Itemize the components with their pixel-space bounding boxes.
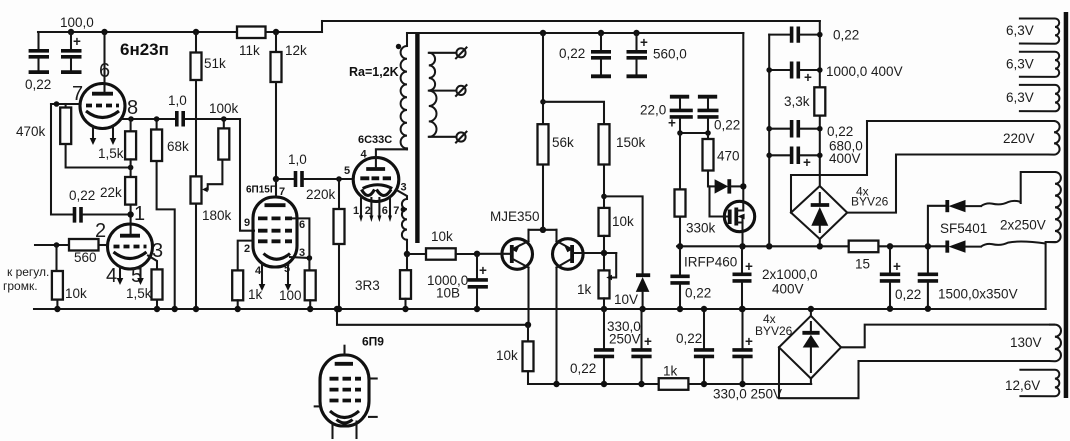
transformer T2 winding 2x250V bbox=[1046, 172, 1061, 242]
resistor R 1k cathode 6П15П bbox=[232, 270, 243, 300]
svg-text:1k: 1k bbox=[663, 364, 678, 379]
resistor R 12k bbox=[271, 32, 282, 197]
resistor R 56k bbox=[538, 33, 549, 230]
svg-text:9: 9 bbox=[244, 217, 250, 229]
transformer T1 secondary winding bbox=[429, 53, 437, 137]
wire Q2 emitter up bbox=[555, 230, 557, 241]
node 3R3 ground bbox=[402, 306, 408, 312]
transformer T1 cathode winding bbox=[397, 190, 408, 254]
wire 220V top lead bbox=[867, 120, 1054, 122]
svg-text:+: + bbox=[640, 35, 648, 50]
wire secondary tap middle bbox=[429, 90, 457, 92]
capacitor C10 0,22 source bypass bbox=[698, 97, 719, 133]
heater leg V2 left with arrow bbox=[261, 264, 263, 284]
node 68k top bbox=[154, 116, 160, 122]
svg-text:1: 1 bbox=[353, 205, 359, 217]
capacitor C8 560,0 electrolytic bbox=[627, 33, 649, 76]
node 100 ground bbox=[307, 306, 313, 312]
capacitor C17 0,22 top right bbox=[769, 27, 820, 43]
wire cathode V1a y=119 bbox=[121, 118, 175, 120]
wire bridge2 top to ground rail bbox=[810, 309, 812, 316]
heater leg V3 2 with arrow bbox=[370, 198, 372, 216]
svg-text:10k: 10k bbox=[496, 348, 518, 363]
svg-text:10V: 10V bbox=[614, 292, 638, 307]
capacitor C16 330,0 250V electrolytic 2 bbox=[732, 309, 753, 384]
svg-text:1,5k: 1,5k bbox=[126, 286, 152, 301]
svg-text:1,5k: 1,5k bbox=[98, 146, 124, 161]
wire 1,5k to ground bbox=[156, 300, 158, 309]
svg-text:400V: 400V bbox=[829, 151, 861, 166]
heater leg V1b right with arrow bbox=[139, 267, 141, 278]
capacitor C21 0,22 output bbox=[880, 246, 901, 308]
node C21 ground bbox=[887, 306, 893, 312]
svg-text:2: 2 bbox=[365, 205, 371, 217]
svg-text:0,22: 0,22 bbox=[714, 118, 740, 133]
node 220k top bbox=[336, 176, 342, 182]
node 12k / pin7 / C5 bbox=[273, 176, 279, 182]
node right column C20 bbox=[817, 153, 823, 159]
node cap 560,0 rail bbox=[633, 30, 639, 36]
svg-text:8: 8 bbox=[127, 97, 138, 119]
node 22,0 bottom bbox=[677, 130, 683, 136]
svg-text:100k: 100k bbox=[209, 101, 239, 116]
wire ground rail y=309 bbox=[34, 308, 1046, 310]
wire bridge1 left AC input bbox=[791, 121, 867, 213]
node diode drain junction bbox=[740, 183, 746, 189]
heater leg V2 right with arrow bbox=[287, 264, 289, 284]
svg-text:6,3V: 6,3V bbox=[1006, 57, 1034, 72]
svg-text:6П15П: 6П15П bbox=[246, 185, 277, 196]
svg-text:+: + bbox=[668, 116, 676, 131]
wire bridge2 bottom to bias line bbox=[810, 379, 812, 385]
svg-text:6,3V: 6,3V bbox=[1006, 23, 1034, 38]
node 1 anode V1b bbox=[127, 211, 133, 217]
svg-text:+: + bbox=[893, 259, 901, 274]
svg-text:+: + bbox=[804, 70, 812, 85]
node phase dot primary bbox=[396, 44, 401, 49]
svg-text:MJE350: MJE350 bbox=[490, 209, 540, 224]
capacitor C12 2x1000,0 400V bbox=[733, 246, 754, 309]
transformer T1 core bbox=[415, 34, 419, 243]
transformer T2 winding 6,3V no3 bbox=[1019, 85, 1060, 111]
svg-text:SF5401: SF5401 bbox=[940, 221, 987, 236]
resistor R 470 bbox=[703, 133, 714, 186]
svg-text:2x1000,0: 2x1000,0 bbox=[762, 267, 818, 282]
svg-text:3,3k: 3,3k bbox=[784, 94, 810, 109]
capacitor C7 0,22 rail bypass bbox=[591, 33, 611, 76]
capacitor C5 1,0 coupling to 6C33C bbox=[276, 171, 354, 187]
capacitor C6 1000,0 10B electrolytic bbox=[468, 254, 488, 309]
svg-text:+: + bbox=[479, 263, 487, 278]
node bridge1 rail bbox=[817, 243, 823, 249]
svg-text:470: 470 bbox=[717, 149, 740, 164]
node 0,22 bottom bbox=[705, 130, 711, 136]
wire top rail y=21 bbox=[322, 20, 820, 22]
resistor R 3,3k bbox=[814, 87, 825, 115]
wire emitter jumper bbox=[529, 229, 557, 231]
transformer T2 core bbox=[1064, 12, 1069, 398]
node emitter junction bbox=[540, 227, 546, 233]
wire right cap column x=819.8 bbox=[819, 21, 821, 186]
wire C3 to node 1 bbox=[83, 213, 131, 215]
resistor R 560 input bbox=[69, 239, 99, 251]
node grid V1a bbox=[54, 101, 60, 107]
svg-text:4: 4 bbox=[106, 265, 117, 287]
svg-text:BYV26: BYV26 bbox=[851, 195, 889, 209]
svg-text:6П9: 6П9 bbox=[362, 335, 384, 349]
node left column C20 bbox=[766, 153, 772, 159]
wire 560 to grid V1b bbox=[99, 244, 109, 246]
node 150k zener branch bbox=[601, 194, 607, 200]
capacitor C4 1,0 coupling bbox=[177, 111, 183, 127]
svg-text:Ra=1,2K: Ra=1,2K bbox=[349, 65, 399, 79]
svg-text:0,22: 0,22 bbox=[685, 286, 711, 301]
node input 10k bbox=[54, 242, 60, 248]
terminal tap middle bbox=[456, 85, 467, 96]
capacitor C18 1000,0 400V electrolytic bbox=[769, 62, 820, 86]
resistor R 15 bbox=[849, 241, 879, 253]
terminal tap top bbox=[456, 48, 467, 59]
heater leg V1a left with arrow bbox=[92, 126, 94, 138]
node Q1 collector ground2 bbox=[525, 322, 531, 328]
node C22 ground bbox=[925, 306, 931, 312]
svg-text:10k: 10k bbox=[612, 214, 634, 229]
tube V1a triode 6н23п bbox=[80, 84, 125, 129]
resistor R 470k bbox=[60, 108, 71, 145]
svg-text:1: 1 bbox=[134, 203, 145, 225]
transformer T2 winding 130V bbox=[1049, 325, 1061, 362]
node cathode winding to 3R3 bbox=[404, 251, 410, 257]
node C15 bias line bbox=[701, 381, 707, 387]
resistor R 150k bbox=[599, 124, 610, 208]
wire corner grid feed 6П15П bbox=[240, 119, 254, 231]
svg-text:6С33С: 6С33С bbox=[358, 134, 392, 146]
resistor R 22k bbox=[125, 159, 136, 235]
heater leg V3 1 with arrow bbox=[360, 197, 362, 216]
node C12 ground bbox=[739, 306, 745, 312]
transistor U1 IRFP460 MOSFET bbox=[710, 186, 755, 231]
svg-text:7: 7 bbox=[72, 83, 83, 105]
svg-text:3R3: 3R3 bbox=[355, 278, 380, 293]
wire pin2 to 1k bbox=[238, 241, 253, 271]
svg-text:220k: 220k bbox=[306, 187, 336, 202]
svg-text:7: 7 bbox=[279, 186, 285, 198]
svg-text:100: 100 bbox=[279, 288, 302, 303]
node 68k ground bbox=[172, 306, 178, 312]
capacitor C2 100,0 electrolytic bbox=[61, 32, 82, 72]
wire C4 to 100k node bbox=[185, 118, 240, 120]
capacitor C1 0,22 input filter bbox=[29, 32, 49, 72]
svg-text:1k: 1k bbox=[248, 287, 263, 302]
svg-text:12,6V: 12,6V bbox=[1005, 378, 1040, 393]
wire 180k to ground bbox=[195, 204, 197, 309]
capacitor C14 330,0 250V electrolytic bbox=[631, 309, 652, 384]
wire bridge1 bottom to rail bbox=[819, 239, 821, 246]
heater leg V3 7 with arrow bbox=[389, 197, 391, 216]
node ground tie x=337 bbox=[334, 306, 340, 312]
svg-text:+: + bbox=[73, 34, 81, 49]
svg-text:250V: 250V bbox=[609, 332, 641, 347]
svg-text:150k: 150k bbox=[616, 135, 646, 150]
svg-text:22,0: 22,0 bbox=[640, 103, 666, 118]
diode D gate protection bbox=[708, 179, 743, 193]
node anode V1a rail bbox=[101, 29, 107, 35]
svg-text:12k: 12k bbox=[285, 43, 307, 58]
svg-text:1,0: 1,0 bbox=[168, 93, 187, 108]
wire squiggle upper winding bbox=[981, 201, 1021, 206]
node C22 top bbox=[925, 243, 931, 249]
svg-text:0,22: 0,22 bbox=[25, 77, 51, 92]
wire top rail left B+ y=32 bbox=[38, 31, 322, 33]
svg-text:180k: 180k bbox=[202, 208, 232, 223]
svg-text:0,22: 0,22 bbox=[895, 287, 921, 302]
resistor R 1k bias line bbox=[659, 378, 689, 390]
wire to 2x250V top bbox=[1021, 172, 1055, 203]
resistor R 220k bbox=[334, 179, 345, 309]
wire 68k to ground jog bbox=[157, 161, 175, 309]
wire left cap column x=769 bbox=[768, 35, 770, 247]
svg-text:10k: 10k bbox=[65, 286, 87, 301]
svg-text:100,0: 100,0 bbox=[60, 15, 94, 30]
svg-text:2: 2 bbox=[244, 243, 250, 255]
node 56k wire bbox=[540, 99, 546, 105]
svg-text:560,0: 560,0 bbox=[653, 47, 687, 62]
wire filtered rail y=33 bbox=[407, 32, 743, 34]
svg-text:330k: 330k bbox=[686, 221, 716, 236]
svg-text:+: + bbox=[644, 334, 652, 349]
wire source to B+ rail bbox=[741, 231, 743, 247]
resistor R 100 cathode bbox=[305, 258, 316, 309]
wire bridge1 right AC input bbox=[847, 155, 1048, 213]
node cathode V1a bbox=[128, 116, 134, 122]
node 220k ground bbox=[336, 306, 342, 312]
transformer T1 primary winding upper bbox=[401, 33, 407, 149]
svg-text:4: 4 bbox=[361, 149, 368, 161]
resistor R 100k bbox=[218, 119, 229, 160]
node MOSFET source rail bbox=[739, 243, 745, 249]
node 12k rail bbox=[273, 29, 279, 35]
capacitor C15 0,22 bias 2 bbox=[694, 309, 714, 384]
trimmer wiper arrow 180k bbox=[202, 187, 208, 193]
svg-text:6н23п: 6н23п bbox=[120, 40, 169, 59]
node 56k rail bbox=[540, 30, 546, 36]
wire Q2 base to bias node bbox=[572, 252, 616, 254]
svg-text:0,22: 0,22 bbox=[559, 46, 585, 61]
bridge rectifier B1 4x BYV26 bbox=[791, 186, 847, 239]
diode D SF5401 upper bbox=[928, 200, 981, 246]
wire 56k to 150k top bbox=[543, 102, 604, 124]
svg-text:470k: 470k bbox=[16, 124, 46, 139]
wire drain column x=743 bbox=[742, 33, 744, 203]
transformer T2 winding 220V bbox=[1048, 121, 1060, 155]
wire bias line y=384 bbox=[528, 371, 811, 384]
wire ground to 2x250V bottom bbox=[1046, 242, 1055, 309]
svg-text:6: 6 bbox=[299, 219, 305, 231]
bridge rectifier B2 4x BYV26 bbox=[779, 316, 841, 379]
wire 1k to ground bbox=[237, 300, 239, 309]
diode D SF5401 lower bbox=[947, 240, 981, 252]
transistor Q2 MJE350 PNP bbox=[553, 239, 584, 384]
wire anode V3 to primary bbox=[376, 149, 407, 168]
svg-text:56k: 56k bbox=[552, 135, 574, 150]
svg-text:громк.: громк. bbox=[3, 279, 38, 293]
svg-text:BYV26: BYV26 bbox=[755, 324, 793, 338]
wire input к регул громк bbox=[35, 244, 69, 246]
node 680 caps left column rail bbox=[766, 243, 772, 249]
wire bridge2 left AC 130V bottom bbox=[779, 347, 1049, 398]
wire 470k bottom to cathode node bbox=[66, 144, 131, 168]
trimmer R 1k bbox=[599, 253, 617, 309]
node Q2 collector bias line bbox=[553, 381, 559, 387]
capacitor C9 22,0 source bypass bbox=[668, 97, 693, 133]
svg-text:11k: 11k bbox=[239, 43, 260, 58]
node 1,5k ground bbox=[154, 306, 160, 312]
transistor Q1 MJE350 PNP bbox=[477, 239, 533, 325]
node trimmer ground bbox=[601, 306, 607, 312]
node cathode 6П15П bbox=[307, 255, 313, 261]
node 1k ground bbox=[235, 306, 241, 312]
heater leg V3 6 with arrow bbox=[378, 198, 380, 216]
resistor R 68k bbox=[151, 119, 162, 161]
resistor R 180k trimmer bbox=[191, 176, 202, 203]
svg-text:6: 6 bbox=[382, 205, 388, 217]
svg-text:0,22: 0,22 bbox=[570, 361, 596, 376]
node C13 bias line bbox=[601, 381, 607, 387]
wire cathode V1b to 1,5k bbox=[148, 256, 157, 270]
svg-text:5: 5 bbox=[344, 165, 350, 177]
node C16 bias line bbox=[739, 381, 745, 387]
capacitor C3 0,22 coupling bbox=[75, 207, 82, 223]
node bridge2 ground bbox=[808, 306, 814, 312]
svg-text:+: + bbox=[803, 155, 811, 170]
svg-text:4: 4 bbox=[255, 265, 262, 277]
tube V2 pentode 6П15П bbox=[253, 197, 297, 267]
svg-text:к регул.: к регул. bbox=[7, 265, 49, 279]
wire bridge2 right AC 130V top bbox=[841, 325, 1054, 348]
wire grid V1a feedback column x=51 bbox=[51, 104, 73, 215]
svg-text:0,22: 0,22 bbox=[827, 124, 853, 139]
capacitor C13 0,22 bias bbox=[594, 309, 614, 384]
diode D zener 10V bbox=[636, 275, 650, 309]
node phase dot cathode winding bbox=[401, 207, 406, 212]
resistor R 10k input bbox=[52, 245, 63, 309]
svg-text:7: 7 bbox=[393, 205, 399, 217]
svg-text:1000,0 400V: 1000,0 400V bbox=[826, 64, 903, 79]
resistor R 11k series in rail bbox=[237, 27, 266, 39]
svg-text:220V: 220V bbox=[1003, 131, 1035, 146]
node C11 ground bbox=[677, 306, 683, 312]
transformer T2 winding 12,6V bbox=[1019, 370, 1059, 396]
capacitor C20 680,0 400V electrolytic bbox=[769, 147, 820, 171]
node left column C19 bbox=[766, 126, 772, 132]
resistor R 1,5k V1b cathode bbox=[152, 269, 163, 299]
node 15 right cap junction bbox=[887, 243, 893, 249]
wire secondary tap top bbox=[429, 52, 457, 54]
node right column C19 bbox=[817, 126, 823, 132]
capacitor C22 1500,0x350V bbox=[918, 246, 938, 308]
svg-text:0,22: 0,22 bbox=[69, 188, 95, 203]
svg-text:6,3V: 6,3V bbox=[1006, 90, 1034, 105]
svg-text:6: 6 bbox=[99, 60, 110, 82]
tube V3 triode 6С33С bbox=[353, 158, 399, 202]
resistor R 1,5k V1a cathode bbox=[125, 119, 136, 159]
node zener ground bbox=[639, 306, 645, 312]
svg-text:2x250V: 2x250V bbox=[1000, 218, 1046, 233]
tube V1b triode 6н23п bbox=[108, 224, 153, 269]
wire pin6 screen to cathode node bbox=[292, 218, 309, 258]
resistor R 10k servo bbox=[407, 248, 477, 259]
heater leg V1a right with arrow bbox=[112, 126, 114, 138]
wire zener branch bbox=[604, 196, 643, 273]
node rail dots top left bbox=[68, 29, 74, 35]
wire ground rail 2 y=324.8 bbox=[337, 309, 528, 325]
svg-text:51k: 51k bbox=[204, 56, 226, 71]
wire step up at x=322 bbox=[321, 21, 323, 32]
resistor R 330k bbox=[675, 133, 686, 246]
node C15 ground bbox=[701, 306, 707, 312]
resistor R 51k bbox=[191, 32, 202, 176]
wire 470k top lead bbox=[65, 104, 67, 108]
wire grid V1a y=104 bbox=[51, 103, 81, 105]
svg-text:10k: 10k bbox=[431, 229, 453, 244]
transformer T2 winding 6,3V no2 bbox=[1019, 52, 1059, 77]
svg-text:0,22: 0,22 bbox=[833, 28, 859, 43]
wire Q1 emitter up bbox=[527, 230, 529, 241]
wire caps junction y=133 bbox=[680, 132, 708, 134]
resistor R 10k driver bbox=[599, 208, 610, 271]
wire secondary tap bottom bbox=[429, 136, 457, 138]
svg-text:330,0 250V: 330,0 250V bbox=[713, 387, 782, 402]
svg-text:400V: 400V bbox=[772, 282, 804, 297]
node right column C18 bbox=[817, 67, 823, 73]
node 10k ground bbox=[54, 306, 60, 312]
node 180k ground bbox=[193, 306, 199, 312]
svg-text:0,22: 0,22 bbox=[676, 331, 702, 346]
svg-text:10В: 10В bbox=[436, 286, 460, 301]
label pins 1 2 6 7 V3 bbox=[353, 205, 399, 217]
svg-text:+: + bbox=[745, 259, 753, 274]
transformer T2 winding 6,3V no1 bbox=[1019, 19, 1059, 44]
wire B+ rail y=246.3 bbox=[677, 245, 947, 247]
svg-text:IRFP460: IRFP460 bbox=[684, 255, 737, 270]
svg-text:22k: 22k bbox=[100, 185, 122, 200]
wire squiggle lower winding bbox=[981, 242, 1046, 247]
wire pin7 top lead bbox=[275, 179, 277, 197]
node C14 bias line bbox=[638, 381, 644, 387]
svg-text:+: + bbox=[745, 334, 753, 349]
resistor R 3R3 bbox=[400, 254, 411, 309]
svg-text:1500,0x350V: 1500,0x350V bbox=[938, 287, 1018, 302]
node junction 1,5k/22k bbox=[128, 165, 134, 171]
terminal tap bottom bbox=[456, 132, 467, 143]
resistor R 10k bias feed bbox=[523, 325, 534, 371]
node C16 ground bbox=[739, 306, 745, 312]
svg-text:15: 15 bbox=[855, 257, 870, 272]
capacitor C19 0,22 bbox=[769, 120, 820, 138]
node 330k B+ rail bbox=[677, 243, 683, 249]
node 100k top bbox=[221, 116, 227, 122]
svg-text:1,0: 1,0 bbox=[288, 152, 307, 167]
wire cathode pin3 bbox=[290, 257, 309, 258]
svg-text:560: 560 bbox=[74, 250, 97, 265]
wire 100k to 180k wiper bbox=[208, 160, 223, 190]
node 51k rail bbox=[193, 29, 199, 35]
tube V4 6П9 spare bbox=[315, 346, 377, 438]
svg-text:130V: 130V bbox=[1010, 335, 1042, 350]
wire anode V1a to rail bbox=[103, 32, 105, 92]
capacitor C11 0,22 B+ to gnd bbox=[670, 246, 689, 309]
svg-text:1k: 1k bbox=[577, 282, 592, 297]
